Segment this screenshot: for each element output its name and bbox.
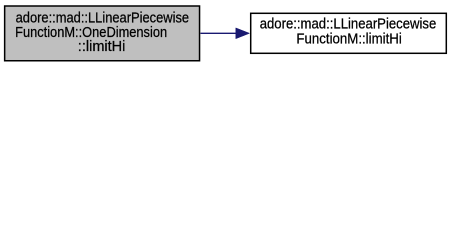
call edge: wire from caller to callee (201, 32, 237, 34)
arrowhead (236, 28, 250, 39)
svg-text:::limitHi: ::limitHi (78, 39, 126, 55)
svg-text:adore::mad::LLinearPiecewise: adore::mad::LLinearPiecewise (260, 17, 437, 33)
svg-text:FunctionM::limitHi: FunctionM::limitHi (296, 31, 401, 47)
node box: callee adore::mad::LLinearPiecewiseFunctionM::limitHi (white node) (251, 13, 447, 53)
node box: caller adore::mad::LLinearPiecewiseFunctionM::OneDimension::limitHi (grey current node) (5, 6, 200, 61)
